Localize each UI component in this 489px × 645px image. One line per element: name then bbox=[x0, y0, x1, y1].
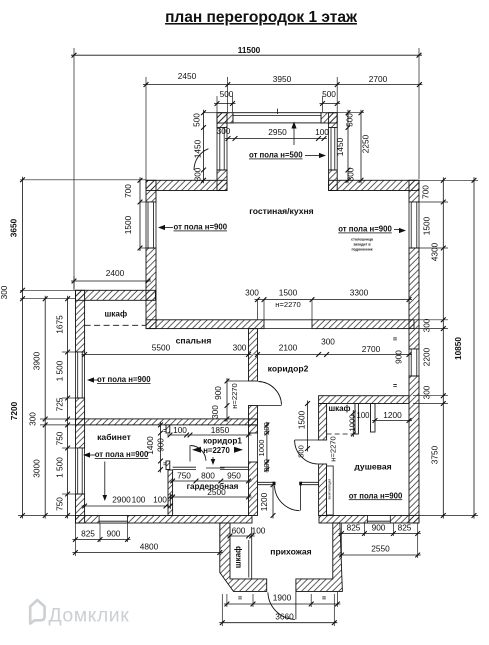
dim porch 3660 bbox=[219, 622, 337, 624]
svg-text:100: 100 bbox=[173, 425, 187, 435]
wall living west upper bbox=[146, 180, 156, 202]
wall east lower bbox=[409, 376, 419, 523]
dim porch closet 600 100 bbox=[227, 535, 255, 537]
arrow right h=900 east bbox=[394, 229, 400, 231]
svg-text:1500: 1500 bbox=[123, 215, 133, 234]
doorway living-koridor2 (1500 h=2270) bbox=[264, 319, 312, 321]
svg-text:=: = bbox=[238, 596, 242, 603]
svg-text:шкаф: шкаф bbox=[234, 546, 243, 568]
svg-text:300: 300 bbox=[422, 385, 432, 399]
svg-text:1 500: 1 500 bbox=[55, 457, 65, 478]
dim bay interior 300 2950 100 bbox=[225, 138, 327, 140]
window bay right wall (1450) bbox=[329, 128, 338, 171]
door dushevaya (800): leaf and arc bbox=[295, 439, 319, 441]
wall bay right lower bbox=[329, 170, 338, 191]
dim bay left vertical 500 1450 300 bbox=[203, 110, 205, 184]
window bottom dushevaya bbox=[367, 516, 390, 524]
svg-text:300: 300 bbox=[245, 288, 259, 298]
wall porch right and bottom-east bbox=[296, 523, 343, 591]
svg-text:заходит в: заходит в bbox=[353, 243, 371, 247]
svg-text:2550: 2550 bbox=[371, 544, 390, 554]
svg-text:2500: 2500 bbox=[207, 487, 226, 497]
dim kabinet 2900 100 bbox=[82, 505, 169, 507]
svg-text:500: 500 bbox=[220, 89, 234, 99]
svg-text:100: 100 bbox=[132, 495, 146, 505]
extension lines top bbox=[73, 48, 75, 289]
dashed line shkaf front (bedroom closet) bbox=[85, 324, 146, 326]
svg-text:н=2270: н=2270 bbox=[203, 446, 230, 455]
svg-text:коридор1: коридор1 bbox=[203, 436, 242, 445]
partition kabinet east upper bbox=[166, 425, 170, 433]
svg-text:825: 825 bbox=[347, 523, 361, 533]
svg-text:от пола н=900: от пола н=900 bbox=[349, 491, 403, 500]
wall porch left and bottom-west bbox=[220, 523, 267, 591]
opening koridor1-hall (1000) bbox=[248, 433, 250, 462]
svg-text:столешница: столешница bbox=[351, 238, 374, 242]
svg-text:725: 725 bbox=[55, 397, 65, 411]
wall dushevaya west upper bbox=[319, 404, 327, 441]
dim west living window 700 1500 bbox=[139, 177, 141, 251]
svg-text:шкаф: шкаф bbox=[328, 404, 350, 413]
svg-text:300: 300 bbox=[321, 337, 335, 347]
svg-text:825: 825 bbox=[81, 529, 95, 539]
window bay center tick bbox=[277, 109, 279, 114]
wall living bottom west segment bbox=[146, 320, 264, 329]
svg-text:900: 900 bbox=[394, 350, 404, 364]
svg-text:200: 200 bbox=[262, 459, 271, 472]
svg-text:коридор2: коридор2 bbox=[268, 364, 309, 374]
svg-text:2100: 2100 bbox=[279, 343, 298, 353]
wall living west lower bbox=[146, 248, 156, 329]
svg-text:750: 750 bbox=[177, 471, 191, 481]
svg-text:300: 300 bbox=[0, 285, 9, 299]
wall bottom east segment bbox=[319, 516, 419, 524]
dim garderobnaya 750 800 950 bbox=[170, 480, 252, 482]
svg-text:10850: 10850 bbox=[453, 337, 463, 360]
extension lines left bbox=[20, 179, 146, 181]
svg-text:от пола н=900: от пола н=900 bbox=[338, 225, 392, 234]
partition garderobnaya north-west segment bbox=[173, 466, 196, 468]
arrow down garderobnaya door bbox=[212, 457, 214, 462]
svg-text:300: 300 bbox=[210, 405, 220, 419]
dim 500 left bay bbox=[214, 103, 236, 105]
wall living bottom east segment bbox=[312, 320, 414, 329]
svg-text:гостиная/кухня: гостиная/кухня bbox=[249, 206, 313, 216]
svg-text:700: 700 bbox=[123, 184, 133, 198]
dim garderobnaya 2500 bbox=[170, 496, 252, 498]
svg-text:1450: 1450 bbox=[193, 139, 203, 158]
wall east upper bbox=[409, 180, 419, 202]
svg-text:Домклик: Домклик bbox=[49, 605, 130, 627]
dim 1000 shkaf dushevaya bbox=[352, 410, 354, 437]
svg-text:1 500: 1 500 bbox=[55, 360, 65, 381]
door kabinet (900): leaf and arc bbox=[189, 445, 191, 462]
svg-text:спальня: спальня bbox=[176, 336, 212, 346]
partition garderobnaya north-east segment bbox=[220, 466, 249, 468]
svg-text:500: 500 bbox=[322, 89, 336, 99]
svg-text:7200: 7200 bbox=[9, 401, 19, 420]
wall koridor2 south bbox=[319, 396, 409, 404]
svg-text:3950: 3950 bbox=[273, 74, 292, 84]
dim left inner 1675 1500 725 750 1500 750 bbox=[67, 296, 69, 519]
wall gardderobnaya east bbox=[249, 462, 258, 516]
svg-text:2250: 2250 bbox=[361, 134, 371, 153]
svg-text:5500: 5500 bbox=[152, 343, 171, 353]
window east living (1500) bbox=[409, 202, 419, 248]
svg-text:4300: 4300 bbox=[430, 242, 440, 261]
dim hall opening 200 1000 200 bbox=[266, 422, 268, 473]
junction dots prihozhaya partition bbox=[273, 482, 276, 486]
wall bay top-left corner bbox=[217, 113, 233, 123]
svg-text:1450: 1450 bbox=[335, 137, 345, 156]
dim 2400 top of shkaf bbox=[71, 280, 151, 282]
dim bottom right 2550 bbox=[339, 554, 421, 556]
svg-text:750: 750 bbox=[55, 497, 65, 511]
wall main top west segment bbox=[146, 180, 227, 190]
svg-text:700: 700 bbox=[421, 185, 431, 199]
svg-text:100: 100 bbox=[356, 411, 370, 420]
svg-text:1500: 1500 bbox=[297, 410, 307, 429]
wall koridor1 east stub bbox=[249, 425, 258, 433]
dim koridor2 2100 300 2700 bbox=[255, 354, 413, 356]
svg-text:1200: 1200 bbox=[383, 410, 402, 420]
arrow down kabinet bbox=[104, 462, 106, 498]
svg-text:825: 825 bbox=[398, 523, 412, 533]
wall west outer lower bbox=[76, 494, 85, 523]
svg-text:300: 300 bbox=[422, 318, 432, 332]
wall bay right upper bbox=[329, 113, 338, 128]
ventilation shaft bbox=[327, 466, 334, 515]
wall bedroom-kabinet divider bbox=[76, 419, 258, 425]
svg-text:300: 300 bbox=[233, 343, 247, 353]
wall bay top-right corner bbox=[321, 113, 337, 123]
svg-text:2900: 2900 bbox=[112, 495, 131, 505]
svg-text:прихожая: прихожая bbox=[270, 547, 311, 557]
svg-text:900: 900 bbox=[156, 438, 166, 452]
svg-text:душевая: душевая bbox=[354, 462, 391, 472]
wall garderobnaya west bbox=[168, 470, 173, 516]
wall east middle bbox=[409, 248, 419, 349]
svg-text:1500: 1500 bbox=[279, 288, 298, 298]
svg-text:н=2270: н=2270 bbox=[275, 300, 301, 309]
arrow right h=500 bbox=[305, 155, 321, 157]
svg-text:1000: 1000 bbox=[348, 415, 357, 432]
svg-text:300: 300 bbox=[217, 126, 231, 136]
dim spalnya 5500 bbox=[82, 354, 252, 356]
door prihozhaya (interior): leaf and arc bbox=[300, 485, 302, 511]
wall bedroom partition lower block bbox=[249, 406, 258, 425]
dim left mid 3900 300 3000 bbox=[44, 296, 46, 519]
dim kabinet door 900 1400 = bbox=[160, 422, 162, 473]
svg-text:500: 500 bbox=[345, 113, 355, 127]
dim left outer 3650 300 7200 bbox=[22, 177, 24, 519]
svg-text:план перегородок 1 этаж: план перегородок 1 этаж bbox=[165, 9, 358, 26]
door bedroom (900): leaf and arc bbox=[258, 405, 282, 407]
svg-text:1900: 1900 bbox=[273, 593, 292, 603]
door entrance: leaf and arc bbox=[295, 591, 297, 619]
svg-text:900: 900 bbox=[372, 523, 386, 533]
sliding door garderobnaya (800) bbox=[206, 467, 225, 469]
svg-text:200: 200 bbox=[262, 422, 271, 435]
svg-text:от пола н=900: от пола н=900 bbox=[95, 450, 149, 459]
dim koridor1 100 1850 bbox=[167, 434, 252, 436]
svg-text:1400: 1400 bbox=[145, 436, 155, 455]
dim right inner 700 1500 4300 300 2200 300 3750 bbox=[442, 177, 444, 518]
svg-text:1675: 1675 bbox=[55, 315, 65, 334]
dim right outer 10850 bbox=[473, 177, 475, 518]
svg-text:500: 500 bbox=[192, 113, 202, 127]
svg-text:900: 900 bbox=[107, 529, 121, 539]
window bottom kabinet bbox=[99, 516, 127, 524]
svg-text:вентиляция: вентиляция bbox=[328, 479, 332, 500]
svg-text:300: 300 bbox=[28, 412, 38, 426]
door swing arc bay left (exterior) bbox=[194, 149, 208, 170]
svg-text:800: 800 bbox=[201, 471, 215, 481]
window living west (1500) bbox=[146, 202, 156, 248]
wall bottom west segment bbox=[76, 516, 253, 524]
arrow up window bay bbox=[293, 124, 295, 146]
svg-text:3660: 3660 bbox=[275, 612, 294, 622]
extension lines right bbox=[419, 201, 448, 203]
svg-text:3000: 3000 bbox=[32, 459, 42, 478]
svg-text:950: 950 bbox=[227, 471, 241, 481]
svg-text:3900: 3900 bbox=[32, 351, 42, 370]
window bedroom west (1500) bbox=[76, 352, 85, 398]
svg-text:100: 100 bbox=[315, 127, 329, 137]
dim bay right vertical 500 1450 300 bbox=[347, 110, 349, 184]
wall bay left upper bbox=[217, 113, 227, 128]
dim bottom right 825 900 825 bbox=[339, 533, 421, 535]
window kabinet west (1500) bbox=[76, 448, 85, 494]
watermark domclick logo bbox=[30, 600, 44, 624]
extension lines porch bottom bbox=[226, 594, 228, 607]
svg-text:=: = bbox=[163, 428, 167, 435]
wall shkaf top bbox=[76, 290, 156, 300]
dim prihozhaya 1200 bbox=[272, 482, 274, 519]
svg-text:=: = bbox=[163, 461, 167, 468]
partition shkaf dushevaya (100) bbox=[355, 404, 358, 435]
window bay left wall (1450) bbox=[217, 128, 227, 171]
svg-text:=: = bbox=[393, 337, 397, 344]
svg-text:2950: 2950 bbox=[268, 127, 287, 137]
svg-text:1850: 1850 bbox=[211, 425, 230, 435]
arrow left kabinet bbox=[88, 454, 95, 456]
svg-text:300: 300 bbox=[346, 167, 356, 181]
svg-text:н=2270: н=2270 bbox=[329, 436, 338, 462]
dim 11500 overall top bbox=[71, 54, 422, 56]
wall main top east segment bbox=[329, 180, 419, 190]
svg-text:3300: 3300 bbox=[350, 288, 369, 298]
wall bay left lower bbox=[217, 170, 227, 191]
sliding door porch closet (thick bar) bbox=[248, 540, 250, 578]
dim bottom left 825 900 bbox=[72, 539, 130, 541]
svg-text:750: 750 bbox=[55, 431, 65, 445]
arrow left spalnya bbox=[92, 379, 99, 381]
partition porch closet bbox=[251, 527, 253, 579]
svg-text:3750: 3750 bbox=[430, 445, 440, 464]
svg-text:=: = bbox=[322, 596, 326, 603]
svg-text:300: 300 bbox=[193, 167, 203, 181]
wall dushevaya west lower bbox=[319, 464, 327, 516]
svg-text:2700: 2700 bbox=[362, 344, 381, 354]
dim doorway living 300 1500 3300 bbox=[255, 299, 413, 301]
svg-text:кабинет: кабинет bbox=[97, 432, 131, 442]
svg-text:2700: 2700 bbox=[369, 74, 388, 84]
svg-text:100: 100 bbox=[153, 495, 167, 505]
arrow left h=900 west bbox=[164, 227, 173, 229]
svg-text:800: 800 bbox=[297, 445, 306, 458]
svg-text:от пола н=900: от пола н=900 bbox=[174, 223, 228, 232]
svg-text:от пола н=900: от пола н=900 bbox=[97, 375, 151, 384]
svg-text:4800: 4800 bbox=[140, 542, 159, 552]
dim bay right vertical 2250 bbox=[360, 110, 362, 184]
svg-text:2200: 2200 bbox=[422, 347, 432, 366]
svg-text:1000: 1000 bbox=[257, 440, 266, 457]
svg-text:от пола н=500: от пола н=500 bbox=[249, 151, 303, 160]
dashed front shkaf dushevaya bbox=[327, 433, 355, 435]
dim 500 right bay bbox=[320, 103, 341, 105]
svg-text:=: = bbox=[393, 383, 397, 390]
partition stub shower screen bbox=[371, 404, 376, 433]
svg-text:600: 600 bbox=[232, 526, 246, 536]
dim bottom left 4800 bbox=[72, 552, 222, 554]
partition prihozhaya north west segment bbox=[258, 481, 275, 483]
svg-text:2400: 2400 bbox=[106, 268, 125, 278]
window east koridor2 (900) bbox=[409, 349, 419, 376]
dim shower block 1500 bbox=[307, 401, 309, 452]
dim porch = 1900 = bbox=[224, 603, 341, 605]
wall bedroom east partition bbox=[249, 329, 258, 381]
window bay top (2950) bbox=[233, 113, 321, 123]
partition prihozhaya north east segment bbox=[301, 481, 319, 483]
wall west outer middle bbox=[76, 398, 85, 448]
svg-text:100: 100 bbox=[252, 526, 266, 536]
wall west outer upper bbox=[76, 290, 85, 352]
svg-text:900: 900 bbox=[213, 386, 223, 400]
svg-text:11500: 11500 bbox=[238, 45, 261, 55]
svg-text:подоконник: подоконник bbox=[351, 248, 372, 252]
dim row 2450 3950 2700 bbox=[143, 84, 422, 86]
svg-text:3650: 3650 bbox=[9, 218, 19, 237]
partition kabinet east lower bbox=[166, 461, 170, 470]
svg-text:2450: 2450 bbox=[178, 71, 197, 81]
svg-text:шкаф: шкаф bbox=[104, 310, 127, 319]
svg-text:1200: 1200 bbox=[259, 492, 269, 511]
svg-text:1500: 1500 bbox=[422, 216, 432, 235]
svg-text:н=2270: н=2270 bbox=[230, 383, 239, 409]
extension lines bottom bbox=[74, 523, 76, 556]
dim bedroom door 900 300 h=2270 bbox=[226, 378, 228, 422]
